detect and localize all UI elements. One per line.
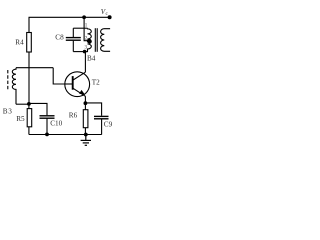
resistor R5 (27, 109, 32, 127)
wire emitter (84, 96, 86, 103)
wire R6 branch (84, 103, 86, 134)
ground (81, 135, 91, 146)
junction dot Vc feed (82, 15, 86, 19)
power terminal Vc (108, 15, 112, 19)
wire tank top (73, 27, 87, 29)
wire left vertical (28, 17, 30, 104)
transformer B3 winding (12, 68, 16, 105)
svg-text:R6: R6 (69, 112, 78, 120)
label Vc (101, 8, 109, 17)
svg-text:C10: C10 (50, 120, 62, 128)
wire center tap feed (84, 17, 87, 40)
svg-text:R5: R5 (16, 115, 25, 123)
svg-text:R4: R4 (15, 39, 24, 47)
wire tank bottom (73, 51, 88, 53)
junction dot center tap (87, 39, 91, 43)
wire R5 branch (28, 104, 30, 135)
transformer B4 primary winding (88, 28, 92, 51)
wire C10 branch top (29, 103, 47, 115)
wire top rail (29, 16, 110, 18)
junction dot emitter node (84, 101, 88, 105)
junction dot base node (27, 102, 31, 106)
capacitor C8 leads (72, 28, 74, 51)
transistor T2 (65, 72, 90, 97)
wire collector (84, 52, 86, 73)
svg-text:B3: B3 (3, 107, 13, 115)
svg-text:T2: T2 (92, 79, 100, 87)
wire base jog (53, 68, 65, 84)
resistor R4 (27, 33, 32, 53)
wire C9 branch bottom (101, 119, 103, 134)
capacitor C9 (94, 116, 109, 118)
junction dot C10 rail (45, 133, 49, 137)
transformer B4 core (95, 28, 97, 52)
wire C9 branch top (85, 103, 101, 116)
svg-text:c: c (106, 11, 109, 17)
junction dot collector tank (83, 50, 87, 54)
svg-text:B4: B4 (87, 54, 96, 62)
transformer B3 core (7, 70, 9, 89)
svg-text:C8: C8 (55, 34, 64, 42)
wire bottom rail (29, 134, 102, 136)
wire B3 bottom lead (16, 103, 29, 105)
transformer B4 secondary winding (101, 29, 111, 52)
junction dot ground node (84, 133, 88, 137)
capacitor C10 (40, 116, 55, 118)
capacitor C8 (66, 38, 81, 41)
wire base node horizontal (16, 67, 53, 69)
wire C10 branch bottom (46, 119, 48, 135)
resistor R6 (83, 110, 88, 128)
svg-text:C9: C9 (104, 121, 113, 129)
